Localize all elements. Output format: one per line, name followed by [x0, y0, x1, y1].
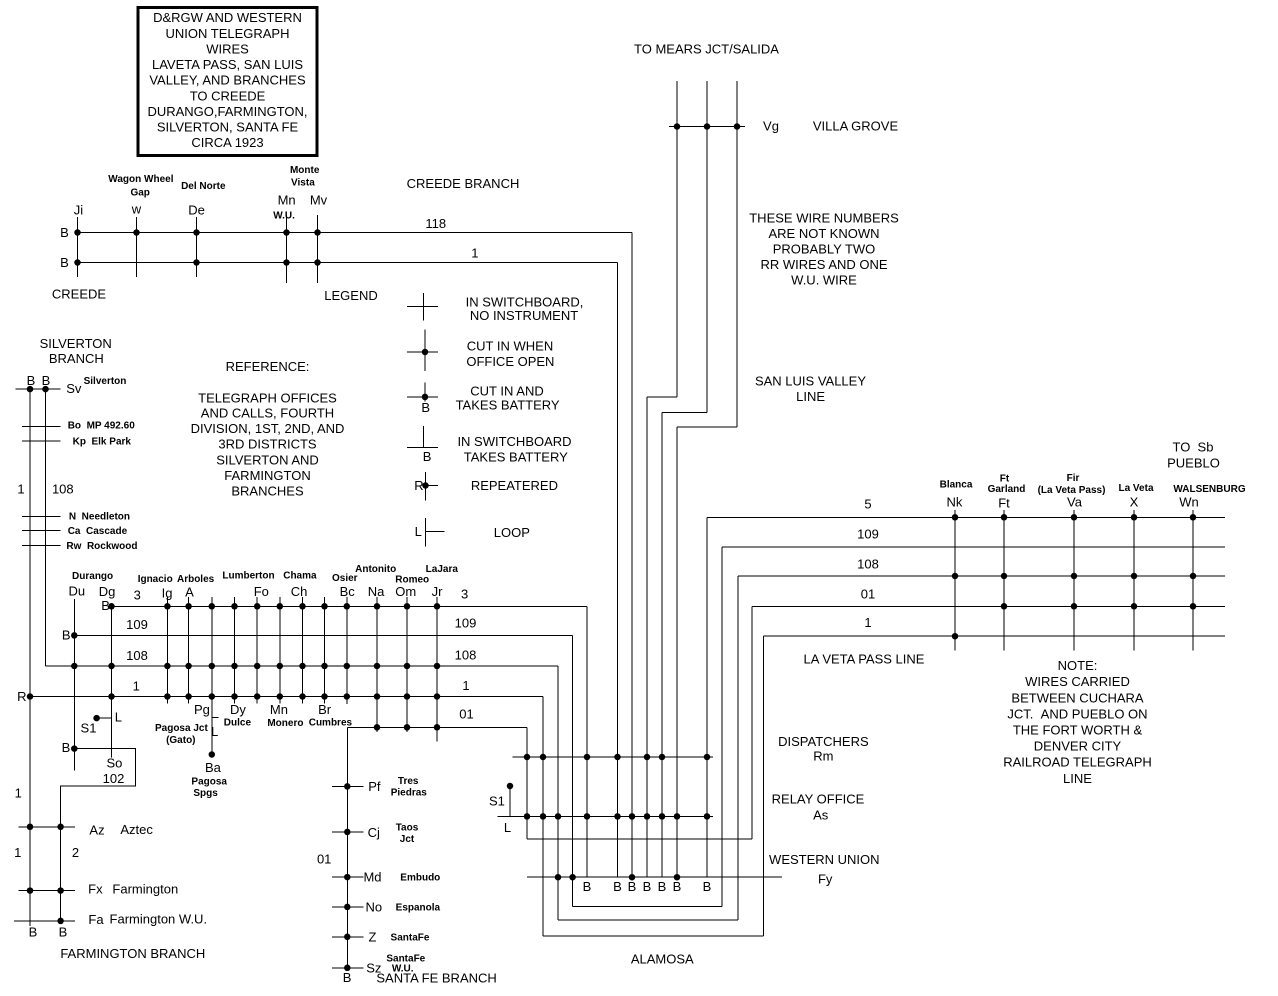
svg-text:Om: Om [395, 584, 416, 599]
svg-text:Ca Cascade: Ca Cascade [68, 526, 128, 537]
wire 109 right (to Pueblo) [722, 527, 1225, 907]
wire 1 connector under Alamosa [543, 935, 764, 937]
station Wn Walsenburg [1173, 484, 1245, 651]
svg-text:WALSENBURG: WALSENBURG [1173, 484, 1245, 495]
station Mn Monte Vista W.U. [273, 192, 295, 283]
svg-text:Md: Md [363, 870, 381, 885]
svg-text:Durango: Durango [72, 571, 113, 582]
svg-text:NO INSTRUMENT: NO INSTRUMENT [470, 308, 578, 323]
svg-text:S1: S1 [489, 793, 505, 808]
station De Del Norte [181, 181, 226, 277]
svg-text:Ft: Ft [1000, 473, 1010, 484]
node B Farmington wire2 [59, 924, 68, 939]
svg-text:L: L [504, 820, 511, 835]
svg-text:D&RGW AND WESTERN: D&RGW AND WESTERN [153, 10, 302, 25]
svg-text:1: 1 [462, 678, 469, 693]
svg-text:Du: Du [68, 584, 85, 599]
wire 109 (Durango row to Alamosa) [74, 616, 572, 907]
svg-text:Tres: Tres [398, 776, 419, 787]
svg-text:Ig: Ig [162, 585, 173, 600]
svg-text:DENVER CITY: DENVER CITY [1034, 739, 1122, 754]
svg-text:Del Norte: Del Norte [181, 181, 226, 192]
svg-text:W.U. WIRE: W.U. WIRE [791, 273, 857, 288]
station Va Fir La Veta Pass [1038, 473, 1106, 651]
svg-text:Az: Az [89, 823, 104, 838]
svg-text:CREEDE BRANCH: CREEDE BRANCH [407, 176, 520, 191]
svg-text:SantaFe: SantaFe [391, 933, 430, 944]
station Fo column [222, 570, 274, 703]
svg-text:B: B [628, 879, 637, 894]
legend text in switchboard no instrument [466, 295, 584, 324]
svg-text:REFERENCE:: REFERENCE: [226, 359, 310, 374]
wire 118 (Creede branch to Alamosa) [78, 216, 633, 877]
svg-text:B: B [658, 879, 667, 894]
svg-text:3RD DISTRICTS: 3RD DISTRICTS [218, 436, 317, 451]
station Dg Durango yard [99, 584, 116, 757]
svg-text:Aztec: Aztec [120, 822, 153, 837]
svg-text:(Gato): (Gato) [166, 735, 195, 746]
svg-text:Ft: Ft [998, 495, 1010, 510]
label SAN LUIS VALLEY LINE [755, 374, 866, 405]
svg-text:102: 102 [103, 771, 125, 786]
svg-text:B: B [42, 373, 51, 388]
svg-text:WIRES: WIRES [206, 41, 249, 56]
station Nk Blanca [940, 480, 973, 651]
node B Farmington wire1 [29, 924, 38, 939]
station Ft Garland [988, 473, 1026, 650]
svg-text:Blanca: Blanca [940, 480, 973, 491]
svg-text:Vg: Vg [763, 119, 779, 134]
station Bc column [332, 573, 358, 704]
station Jr column [426, 564, 459, 742]
label ALAMOSA [631, 952, 694, 967]
station Sv Silverton [15, 373, 126, 396]
label DISPATCHERS Rm [778, 734, 869, 763]
legend symbol in-switchboard cross [407, 293, 438, 321]
svg-text:B: B [583, 879, 592, 894]
node B terminals at Alamosa [583, 879, 712, 894]
wire 108 (from Silverton to Alamosa) [46, 647, 559, 920]
station Ch column [283, 570, 317, 703]
svg-text:Piedras: Piedras [391, 787, 428, 798]
svg-text:WESTERN UNION: WESTERN UNION [769, 852, 880, 867]
svg-text:La Veta: La Veta [1118, 483, 1153, 494]
svg-text:OFFICE OPEN: OFFICE OPEN [466, 354, 554, 369]
station Pf Tres Piedras [332, 776, 427, 799]
svg-text:SILVERTON, SANTA FE: SILVERTON, SANTA FE [157, 120, 299, 135]
station Fx Farmington [18, 882, 178, 897]
svg-text:LAVETA PASS, SAN LUIS: LAVETA PASS, SAN LUIS [152, 57, 303, 72]
legend text cut in when office open [466, 339, 554, 370]
svg-text:3: 3 [134, 588, 141, 603]
svg-text:Silverton: Silverton [84, 376, 127, 387]
svg-text:Spgs: Spgs [193, 788, 218, 799]
svg-text:109: 109 [455, 616, 477, 631]
station Om column [395, 575, 429, 732]
station Dy column [224, 597, 252, 729]
svg-text:Fy: Fy [818, 872, 833, 887]
note these wire numbers [749, 211, 899, 288]
svg-text:IN SWITCHBOARD: IN SWITCHBOARD [457, 434, 571, 449]
svg-text:DISPATCHERS: DISPATCHERS [778, 734, 869, 749]
svg-text:Antonito: Antonito [355, 564, 396, 575]
svg-text:w: w [131, 202, 142, 217]
station N Needleton [22, 512, 130, 523]
svg-text:1: 1 [864, 615, 871, 630]
station Bo MP 492.60 [22, 420, 135, 431]
label CREEDE BRANCH [407, 176, 520, 191]
wire 102 (Dg battery to Farmington) [61, 740, 136, 921]
svg-text:5: 5 [864, 497, 871, 512]
svg-text:SAN LUIS VALLEY: SAN LUIS VALLEY [755, 374, 866, 389]
wire 01 right (to Pueblo) [752, 587, 1225, 839]
svg-text:FARMINGTON BRANCH: FARMINGTON BRANCH [60, 946, 205, 961]
svg-text:SILVERTON AND: SILVERTON AND [216, 452, 319, 467]
svg-text:B: B [703, 879, 712, 894]
svg-text:B: B [643, 879, 652, 894]
wire Santa Fe branch trunk [346, 727, 348, 968]
svg-text:Farmington W.U.: Farmington W.U. [110, 911, 208, 926]
svg-text:Dy: Dy [230, 702, 246, 717]
wire 108 connector under Alamosa [558, 919, 738, 921]
svg-text:Dulce: Dulce [224, 718, 252, 729]
svg-text:RELAY OFFICE: RELAY OFFICE [772, 792, 865, 807]
loop S1 at Alamosa [489, 783, 513, 835]
label FARMINGTON BRANCH [60, 946, 205, 961]
label wire 2 Farmington [72, 845, 79, 860]
node R repeatered wire 1 [17, 689, 33, 704]
svg-text:Ji: Ji [74, 202, 84, 217]
label wire 1 Silverton [17, 482, 24, 497]
svg-text:LEGEND: LEGEND [324, 288, 377, 303]
svg-text:Monte: Monte [290, 165, 320, 176]
svg-text:ARE NOT KNOWN: ARE NOT KNOWN [769, 226, 880, 241]
svg-text:Gap: Gap [130, 187, 149, 198]
svg-text:Va: Va [1067, 495, 1083, 510]
label WESTERN UNION Fy [769, 852, 880, 887]
svg-text:So: So [106, 755, 122, 770]
station Vg Villa Grove [669, 119, 898, 134]
node B wire 109 start Du [62, 628, 78, 643]
svg-text:Z: Z [369, 929, 377, 944]
label LEGEND [324, 288, 377, 303]
svg-text:B: B [62, 628, 71, 643]
svg-text:Lumberton: Lumberton [222, 570, 274, 581]
svg-text:Kp Elk Park: Kp Elk Park [73, 436, 132, 447]
svg-text:109: 109 [857, 527, 879, 542]
wire relay office line As [498, 813, 713, 820]
reference text block [191, 359, 345, 498]
svg-text:Rw Rockwood: Rw Rockwood [66, 541, 137, 552]
svg-text:Cj: Cj [368, 825, 380, 840]
svg-text:Farmington: Farmington [112, 882, 178, 897]
legend symbol in-switchboard takes battery [407, 426, 438, 464]
svg-text:Taos: Taos [396, 823, 419, 834]
svg-text:Mn: Mn [270, 702, 288, 717]
svg-text:REPEATERED: REPEATERED [471, 478, 558, 493]
legend symbol loop [415, 518, 445, 547]
wire 1 right (to Pueblo) [764, 615, 1226, 936]
wire Mears C (jogs to x677) [677, 81, 737, 877]
svg-text:RAILROAD TELEGRAPH: RAILROAD TELEGRAPH [1003, 755, 1152, 770]
svg-text:Fir: Fir [1067, 473, 1080, 484]
svg-text:B: B [62, 740, 71, 755]
svg-text:Mn: Mn [278, 192, 296, 207]
legend text in switchboard takes battery [457, 434, 571, 465]
svg-text:AND CALLS, FOURTH: AND CALLS, FOURTH [201, 405, 334, 420]
wire Mears B (jogs to x662) [662, 81, 707, 877]
svg-text:Bc: Bc [340, 584, 356, 599]
svg-text:Wagon Wheel: Wagon Wheel [108, 174, 173, 185]
svg-text:Fx: Fx [88, 882, 103, 897]
svg-text:L: L [115, 710, 122, 725]
label 1 above Aztec [15, 786, 22, 801]
svg-text:W.U.: W.U. [273, 211, 295, 222]
station Ji Creede [74, 202, 84, 277]
label wire 108 Silverton [52, 482, 74, 497]
station No Espanola [332, 899, 441, 914]
svg-text:Arboles: Arboles [177, 574, 215, 585]
svg-text:B: B [673, 879, 682, 894]
svg-text:R: R [414, 478, 423, 493]
station Na column [355, 564, 396, 732]
station Az Aztec [18, 822, 153, 838]
svg-text:B: B [60, 255, 69, 270]
svg-text:Embudo: Embudo [400, 873, 440, 884]
svg-text:Osier: Osier [332, 573, 358, 584]
svg-text:No: No [365, 899, 382, 914]
station Mn (Monero) column [267, 597, 303, 729]
svg-text:B: B [613, 879, 622, 894]
svg-text:Rm: Rm [813, 748, 833, 763]
station Kp Elk Park [22, 436, 131, 447]
label LA VETA PASS LINE [804, 652, 925, 667]
node B wire 3 start Dg [101, 598, 110, 613]
svg-text:Sv: Sv [66, 381, 82, 396]
svg-text:RR WIRES AND ONE: RR WIRES AND ONE [760, 257, 887, 272]
svg-text:THE FORT WORTH &: THE FORT WORTH & [1013, 723, 1143, 738]
svg-text:Garland: Garland [988, 484, 1026, 495]
svg-text:(La Veta Pass): (La Veta Pass) [1038, 485, 1106, 496]
wire western union line Fy [527, 874, 782, 881]
svg-text:TELEGRAPH OFFICES: TELEGRAPH OFFICES [198, 390, 337, 405]
svg-text:B: B [343, 970, 352, 985]
svg-text:Dg: Dg [99, 584, 116, 599]
svg-text:NOTE:: NOTE: [1058, 658, 1098, 673]
svg-text:LOOP: LOOP [494, 525, 530, 540]
svg-text:Jr: Jr [432, 584, 444, 599]
svg-text:LaJara: LaJara [426, 564, 459, 575]
legend symbol cut-in dot [407, 330, 438, 372]
svg-text:118: 118 [425, 216, 446, 231]
svg-text:Bo MP 492.60: Bo MP 492.60 [68, 420, 136, 431]
label Durango [72, 571, 113, 582]
legend text loop [494, 525, 530, 540]
svg-text:Nk: Nk [947, 495, 963, 510]
svg-text:1: 1 [15, 786, 22, 801]
svg-text:ALAMOSA: ALAMOSA [631, 952, 694, 967]
wire 01 connector under Alamosa [527, 838, 752, 840]
svg-text:108: 108 [52, 482, 74, 497]
svg-text:B: B [29, 924, 38, 939]
svg-text:LA VETA PASS LINE: LA VETA PASS LINE [804, 652, 925, 667]
label SILVERTON BRANCH [40, 336, 112, 366]
svg-text:108: 108 [455, 647, 477, 662]
legend text cut in and takes battery [456, 383, 560, 412]
station Pg column [155, 597, 215, 755]
label CREEDE [52, 286, 107, 301]
legend text repeatered [471, 478, 558, 493]
svg-text:CUT IN WHEN: CUT IN WHEN [467, 339, 553, 354]
svg-text:PUEBLO: PUEBLO [1167, 456, 1220, 471]
svg-text:SILVERTON: SILVERTON [40, 336, 112, 351]
svg-text:BRANCH: BRANCH [49, 351, 104, 366]
svg-text:L: L [415, 524, 422, 539]
station w Wagon Wheel Gap [108, 174, 173, 277]
station Z SantaFe [332, 929, 430, 944]
title box [138, 8, 317, 156]
wire 3 (Durango row to Alamosa) [112, 586, 588, 877]
svg-text:S1: S1 [81, 721, 97, 736]
svg-text:Wn: Wn [1179, 495, 1199, 510]
svg-text:Romeo: Romeo [395, 575, 429, 586]
legend symbol cut-in takes battery [407, 383, 438, 416]
svg-text:Vista: Vista [291, 177, 315, 188]
station Sz SantaFe W.U. [332, 954, 426, 986]
svg-text:Monero: Monero [267, 718, 303, 729]
svg-text:A: A [185, 585, 194, 600]
svg-text:TAKES BATTERY: TAKES BATTERY [456, 397, 560, 412]
svg-text:1: 1 [14, 845, 21, 860]
wire 1 (repeatered row to Alamosa) [30, 678, 543, 936]
svg-text:X: X [1130, 495, 1139, 510]
loop S1 at Dg [81, 710, 122, 736]
station A column [177, 574, 215, 704]
svg-text:2: 2 [72, 845, 79, 860]
svg-text:B: B [421, 400, 430, 415]
svg-text:WIRES CARRIED: WIRES CARRIED [1025, 674, 1130, 689]
wire dispatchers line Rm [512, 754, 713, 761]
svg-text:Jct: Jct [400, 834, 415, 845]
svg-text:DIVISION, 1ST, 2ND, AND: DIVISION, 1ST, 2ND, AND [191, 421, 345, 436]
svg-text:De: De [188, 202, 205, 217]
svg-text:CREEDE: CREEDE [52, 286, 107, 301]
svg-text:Ignacio: Ignacio [138, 574, 173, 585]
svg-text:CUT IN AND: CUT IN AND [470, 383, 543, 398]
svg-text:109: 109 [126, 617, 148, 632]
svg-text:Mv: Mv [310, 192, 328, 207]
label RELAY OFFICE As [772, 792, 865, 823]
svg-text:TO CREEDE: TO CREEDE [190, 88, 266, 103]
svg-text:JCT. AND PUEBLO ON: JCT. AND PUEBLO ON [1007, 706, 1147, 721]
svg-text:B: B [60, 225, 69, 240]
svg-text:VALLEY, AND BRANCHES: VALLEY, AND BRANCHES [149, 73, 306, 88]
svg-text:DURANGO,FARMINGTON,: DURANGO,FARMINGTON, [147, 104, 307, 119]
svg-text:LINE: LINE [1063, 771, 1092, 786]
wire 108 right (to Pueblo) [738, 557, 1225, 920]
label wire 01 Santa Fe [317, 852, 331, 867]
legend symbol repeatered [414, 472, 438, 501]
svg-text:TO Sb: TO Sb [1173, 440, 1214, 455]
svg-text:Pagosa Jct: Pagosa Jct [155, 723, 208, 734]
svg-text:01: 01 [459, 707, 473, 722]
svg-text:N Needleton: N Needleton [69, 512, 130, 523]
svg-text:THESE WIRE NUMBERS: THESE WIRE NUMBERS [749, 211, 899, 226]
svg-text:LINE: LINE [796, 389, 825, 404]
station Md Embudo [332, 870, 440, 885]
svg-text:CIRCA 1923: CIRCA 1923 [191, 135, 263, 150]
svg-text:108: 108 [857, 557, 879, 572]
wire 109 connector under Alamosa [573, 905, 722, 907]
svg-text:B: B [27, 373, 36, 388]
wire 1 (Creede branch to Alamosa) [78, 245, 618, 877]
svg-text:BETWEEN CUCHARA: BETWEEN CUCHARA [1011, 690, 1144, 705]
station Ca Cascade [22, 526, 127, 537]
wire Mears A (jogs to x647) [647, 81, 677, 877]
svg-text:01: 01 [861, 587, 875, 602]
svg-text:01: 01 [317, 852, 331, 867]
svg-text:FARMINGTON: FARMINGTON [224, 468, 310, 483]
node Ba Pagosa Springs [191, 751, 227, 799]
svg-text:R: R [17, 689, 26, 704]
label TO MEARS JCT/SALIDA [634, 42, 779, 57]
wire 5 (to Pueblo, down to Alamosa) [707, 497, 1225, 878]
wire 01 (row to Alamosa) [347, 707, 527, 839]
svg-text:UNION TELEGRAPH: UNION TELEGRAPH [165, 26, 289, 41]
svg-text:Fo: Fo [254, 584, 269, 599]
label wire 1 Farmington [14, 845, 21, 860]
svg-text:L: L [211, 724, 218, 739]
svg-text:BRANCHES: BRANCHES [231, 483, 304, 498]
note wires carried between Cuchara [1003, 658, 1152, 786]
svg-text:B: B [423, 449, 432, 464]
station Br column [309, 597, 353, 728]
station Rw Rockwood [22, 541, 137, 552]
svg-text:Pg: Pg [194, 702, 210, 717]
station Mv Monte Vista [290, 165, 328, 283]
svg-text:TAKES BATTERY: TAKES BATTERY [464, 450, 568, 465]
station Du Durango [68, 584, 85, 771]
svg-text:Br: Br [318, 702, 332, 717]
node B wire 1 Creede end [60, 255, 69, 270]
svg-text:Ba: Ba [205, 760, 222, 775]
svg-text:Pf: Pf [368, 779, 381, 794]
svg-text:Pagosa: Pagosa [191, 776, 227, 787]
svg-text:Chama: Chama [283, 570, 317, 581]
svg-text:B: B [59, 924, 68, 939]
wire Silverton trunk 1 (x30) [29, 389, 31, 926]
svg-text:108: 108 [126, 648, 148, 663]
svg-text:As: As [813, 808, 829, 823]
station Fa Farmington W.U. [14, 911, 207, 927]
svg-text:Espanola: Espanola [396, 903, 441, 914]
svg-text:TO MEARS JCT/SALIDA: TO MEARS JCT/SALIDA [634, 42, 779, 57]
label SANTA FE BRANCH [376, 971, 496, 986]
svg-text:1: 1 [17, 482, 24, 497]
label TO Sb PUEBLO [1167, 440, 1220, 471]
svg-text:1: 1 [471, 245, 478, 260]
svg-text:Cumbres: Cumbres [309, 717, 353, 728]
node B wire 118 Creede end [60, 225, 69, 240]
svg-text:Ch: Ch [291, 584, 308, 599]
svg-text:SANTA FE BRANCH: SANTA FE BRANCH [376, 971, 496, 986]
svg-text:VILLA GROVE: VILLA GROVE [813, 119, 899, 134]
svg-text:3: 3 [461, 586, 468, 601]
wire Silverton 108 (x45.5, becomes row 108) [45, 389, 47, 666]
station Cj Taos Jct [332, 823, 419, 846]
station X La Veta [1118, 483, 1153, 651]
svg-text:Na: Na [368, 584, 385, 599]
